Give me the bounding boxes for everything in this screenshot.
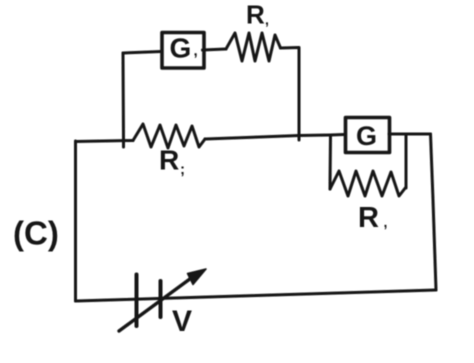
svg-text:,: , [384, 214, 388, 230]
resistor R2 zigzag [133, 124, 205, 148]
resistor R shunt zigzag [330, 171, 406, 196]
galvanometer G box [346, 118, 390, 153]
wire left stub of shunt resistor [329, 135, 333, 189]
svg-text:;: ; [180, 161, 185, 178]
svg-text:R: R [358, 202, 379, 234]
svg-text:R: R [246, 0, 265, 30]
wire middle left segment [76, 141, 134, 142]
wire left vertical of main loop [74, 141, 77, 301]
wire right vertical of main loop [431, 134, 437, 290]
battery arrow head [188, 269, 207, 285]
wire top loop left vertical [122, 53, 126, 141]
battery V left plate [135, 275, 139, 327]
svg-text:,: , [265, 12, 269, 28]
wire bottom of main loop [76, 290, 437, 301]
wire top loop upper-left horizontal into G1 [123, 52, 161, 54]
wire R1 to top-right corner and down to middle wire [281, 48, 300, 141]
wire right stub of shunt resistor [405, 134, 408, 188]
wire G1 to R1 [203, 49, 227, 50]
svg-text:G: G [356, 121, 377, 151]
wire G box to right corner [389, 133, 431, 136]
galvanometer G1 box [162, 33, 204, 69]
battery variable arrow shaft [119, 273, 198, 331]
battery V right plate [159, 281, 163, 317]
resistor R1 zigzag [226, 33, 281, 61]
node junction of top-loop vertical with middle wire [122, 139, 125, 147]
svg-text:R: R [159, 145, 179, 176]
svg-text:G: G [170, 33, 192, 64]
svg-text:V: V [172, 305, 192, 338]
wire middle right segment [205, 135, 344, 140]
svg-text:,: , [194, 43, 198, 60]
svg-text:(C): (C) [13, 215, 59, 252]
